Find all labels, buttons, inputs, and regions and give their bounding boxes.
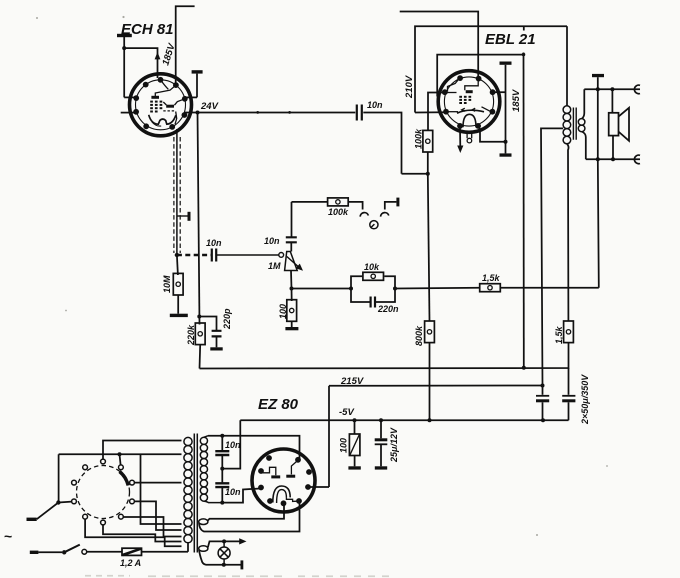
wire: hook2 to ground bar — [385, 202, 397, 210]
wire: selector frame left — [58, 454, 60, 502]
ground bar under 100 — [348, 466, 360, 469]
wire: output transformer primary top lead — [566, 26, 568, 106]
scan specks — [36, 16, 608, 536]
wire: 10k branch — [351, 276, 395, 288]
wire: EBL21 right pin to shield — [493, 91, 506, 93]
svg-text:10n: 10n — [225, 440, 241, 450]
resistor 10M — [173, 273, 183, 295]
node: junction pot / 100 ohm — [290, 287, 294, 291]
ground bar of shield — [177, 212, 191, 221]
fuse 1,2A — [122, 548, 142, 555]
resistor 1,5k (vertical, B+ dropper) — [564, 321, 574, 343]
wire: selector frame right to winding — [141, 454, 182, 524]
wire: to 100 ohm — [354, 420, 356, 434]
wire: to 100 ohm — [291, 289, 293, 302]
voltage selector (dashed circle) — [77, 466, 130, 519]
terminal hook bottom right — [634, 155, 640, 164]
EBL21 internal structure — [445, 78, 493, 143]
svg-text:100: 100 — [339, 438, 349, 453]
wire: 220p to ground — [216, 336, 218, 347]
svg-text:ECH 81: ECH 81 — [121, 21, 174, 38]
node: junction screen feed — [522, 366, 526, 370]
wire: AVC dashed line to C 10n — [177, 254, 211, 257]
wire: pot top line to 100k — [292, 201, 328, 203]
node: junction — [596, 87, 600, 91]
wire: 210V into EBL21 left pin — [415, 111, 446, 113]
node: junction — [393, 287, 397, 291]
capacitor 2x50u/350V (cell 1) — [536, 386, 549, 421]
resistor 100 (cathode) — [287, 300, 297, 322]
wire: to volume pot input — [216, 254, 279, 256]
mains lead 1 — [27, 503, 59, 522]
wire: lamp lead bottom — [199, 550, 241, 565]
wire: speaker bottom line — [586, 158, 640, 160]
terminal hook top right — [634, 85, 640, 94]
node: junction — [611, 157, 615, 161]
EZ80 internal structure — [261, 460, 298, 503]
wire: selector tap 6 — [103, 525, 182, 542]
selector terminals — [72, 459, 135, 525]
svg-text:~: ~ — [4, 528, 12, 544]
wire: lamp lead top with arrow — [208, 541, 241, 547]
arrow: heater 6.3V tap — [239, 538, 246, 544]
wire: T1 primary bottom lead to fuse line — [187, 543, 189, 552]
wire: top line EZ80 B+ riser — [328, 386, 330, 487]
node: junction — [596, 157, 600, 161]
resistor 800k — [425, 321, 435, 343]
ground T-bar left of ECH81 — [117, 34, 132, 98]
tube ECH81 — [130, 74, 192, 136]
svg-text:1,5k: 1,5k — [482, 273, 501, 283]
arrow: EBL21 cathode current arrow — [459, 128, 461, 148]
capacitor 10n (HV filter 1) — [215, 436, 229, 469]
wire: EZ80 cathode to B+ riser — [308, 486, 329, 488]
node: junction above lamp — [222, 539, 226, 543]
wire: speaker feeds — [611, 89, 614, 159]
wire: EBL21 pin to 100k — [428, 93, 447, 131]
svg-text:220k: 220k — [186, 324, 196, 346]
dial lamp — [218, 541, 230, 564]
capacitor 25u/12V — [375, 420, 388, 466]
node: junction heater CT — [220, 467, 224, 471]
wire: branch to 220p — [199, 317, 216, 331]
svg-text:-5V: -5V — [339, 407, 354, 418]
transformer T1 core — [194, 434, 197, 553]
node: junction 220p branch — [197, 315, 201, 319]
svg-text:1,5k: 1,5k — [554, 325, 564, 344]
node: junction under lamp — [222, 563, 226, 567]
wire: selector tap 7 — [85, 519, 181, 546]
transformer T2 core — [573, 108, 576, 140]
wire: 800k to -5V line — [429, 343, 431, 421]
svg-text:10n: 10n — [264, 236, 280, 246]
svg-text:185V: 185V — [511, 89, 522, 112]
resistor 220k — [195, 323, 205, 345]
wire: B+ tap from T2 primary — [541, 128, 563, 385]
wire: 100 to ground — [354, 456, 356, 467]
wire: T2 secondary bottom lead — [582, 132, 586, 160]
wire: B+ line y=385 — [329, 385, 543, 387]
wire: speaker top line — [584, 88, 640, 90]
wire: ECH81 antenna stub (left lower pin) — [121, 112, 137, 114]
wire: heater lead 2 — [199, 503, 300, 532]
wire: 100k bottom to node — [427, 152, 429, 174]
arrow 185V pointing up on wire — [155, 52, 161, 59]
wire: ECH81 anode stub to top edge — [176, 6, 195, 84]
node: junction — [118, 452, 122, 456]
node: junction — [428, 418, 432, 422]
wire: grid line ECH81 to C 10n (24V line) — [184, 112, 355, 114]
wire: anode feed nub at B+ line (label gap) — [523, 26, 525, 30]
ground shield bar bottom (EBL21) — [500, 153, 512, 156]
wire: -5V bias line — [240, 419, 568, 421]
ground bar (lamp circuit) — [241, 560, 244, 569]
wire: vertical cap above volume pot — [291, 202, 293, 237]
wire: cut-off top line to EBL21 grid — [400, 12, 479, 78]
wire: ECH81 right pin to T-bar — [185, 96, 197, 98]
ECH81 pins — [133, 77, 188, 130]
wire: selector frame top tap — [59, 453, 182, 455]
wire: grid lead inside shield — [176, 129, 178, 255]
wire: 215V screen line — [200, 343, 569, 369]
node: junction 800k/100k — [426, 172, 430, 176]
node: junction 24V line / 220k branch — [196, 111, 200, 115]
wire: EBL21 bottom pin to shield — [478, 126, 505, 142]
ground shield bar top (EBL21) — [500, 62, 512, 65]
ground bar under 100 — [285, 327, 298, 330]
wire: heater lead 1 — [208, 505, 284, 521]
wire: selector tap 4 — [134, 501, 181, 530]
node: junction mains in — [56, 500, 60, 504]
EBL21 pins — [442, 75, 496, 129]
transformer T1 HV secondary winding — [200, 437, 207, 501]
tube EBL21 — [438, 71, 500, 143]
node: junction 25u — [379, 418, 383, 422]
resistor 100 (bias divider) — [349, 434, 360, 456]
wire: selector tap 3 — [134, 482, 181, 484]
svg-text:25μ/12V: 25μ/12V — [389, 427, 399, 463]
svg-text:220n: 220n — [377, 304, 399, 314]
node: scan blob on grid line — [256, 111, 259, 114]
node: scan blob on grid line — [288, 111, 291, 114]
wire: pot wiper bottom — [290, 271, 293, 289]
wire: 1.5k to feedback vertical — [500, 287, 599, 289]
ground bar under 10M — [170, 314, 188, 317]
mains lead 2 — [30, 551, 62, 554]
svg-text:10n: 10n — [225, 487, 241, 497]
capacitor C 220n — [371, 297, 375, 308]
wire: 220k bottom to 215V line — [199, 345, 202, 369]
wire: anode branch over EBL21 — [437, 55, 523, 97]
wire: selector tap 5 — [123, 517, 181, 537]
node: junction dot at (124,48) — [122, 46, 126, 50]
svg-text:1,2 A: 1,2 A — [120, 558, 141, 568]
wire: mains to left terminal — [58, 501, 71, 504]
svg-text:10M: 10M — [162, 275, 172, 293]
wire: HV lower to EZ80 anode 2 — [222, 489, 260, 503]
wire: frame to terminal — [120, 454, 121, 465]
capacitor C 10n (grid coupling to EBL21) — [357, 105, 362, 121]
svg-text:1M: 1M — [268, 261, 281, 271]
wire: 100 to ground — [291, 321, 293, 327]
ground bar (gram) — [396, 198, 399, 207]
node: junction shield wire / AVC line — [175, 253, 179, 257]
wire: shield vertical — [505, 65, 507, 154]
resistor 100k (tone/gram) — [328, 198, 349, 206]
wire: vertical x=598 speaker line to 1.5k line — [598, 89, 599, 288]
wire: ECH81 left pin to T-bar stem — [124, 96, 137, 98]
wire: selector top tap — [103, 441, 182, 460]
wire: grid line corner to node — [402, 173, 428, 175]
bottom faded print artifacts — [85, 575, 392, 577]
transformer T1 heater winding (EZ80) — [199, 519, 208, 525]
node: junction — [220, 501, 224, 505]
capacitor C 10n (AVC) — [212, 249, 216, 262]
wire: HV winding top line to EZ80 anode — [208, 436, 300, 460]
wire: HV top lead — [204, 436, 208, 438]
node: junction anode branch — [522, 53, 526, 57]
wire: HV bottom lead — [204, 501, 222, 502]
node: junction — [610, 87, 614, 91]
svg-text:2×50μ/350V: 2×50μ/350V — [580, 374, 590, 425]
wire: fuse to primary — [142, 551, 189, 553]
svg-text:800k: 800k — [414, 325, 424, 346]
svg-text:100: 100 — [278, 304, 288, 319]
EBL21 grid mesh dots — [459, 96, 471, 104]
wire: switch to fuse — [87, 551, 122, 553]
wire: -5V to heater CT — [222, 420, 240, 468]
transformer T1 dial lamp winding — [199, 546, 208, 552]
svg-text:100k: 100k — [414, 128, 424, 149]
svg-text:10n: 10n — [367, 100, 383, 110]
svg-text:210V: 210V — [404, 75, 415, 99]
wire: vertical to 800k — [428, 174, 430, 321]
tube EZ80 — [252, 449, 315, 512]
wire: AF line to 1.5k — [395, 287, 480, 290]
resistor 10k — [363, 272, 384, 280]
wire: anode/screen vertical x=523.5 — [523, 53, 525, 368]
svg-text:EZ 80: EZ 80 — [258, 396, 299, 413]
wire: T2 primary bottom lead down — [567, 144, 569, 321]
wire: 100k to hook1 — [348, 202, 362, 210]
wire: 210V vertical and B+ top line — [415, 26, 567, 112]
EZ80 pins — [258, 455, 312, 506]
svg-text:24V: 24V — [200, 101, 219, 112]
ground T-bar above speaker — [592, 74, 604, 89]
wire: cap to pot — [290, 242, 292, 251]
capacitor 10n (HV filter 2) — [215, 469, 229, 503]
terminal hook 1 (gram input) — [360, 213, 368, 217]
svg-text:10n: 10n — [206, 238, 222, 248]
node: junction — [349, 287, 353, 291]
wire: 10M to ground — [177, 295, 179, 314]
wire: T2 secondary top lead — [582, 89, 584, 119]
wire: vertical from 24V node down to 220k — [198, 113, 200, 325]
node: junction — [220, 434, 224, 438]
plug symbol (gram) — [370, 221, 378, 229]
resistor 1,5k (grid stopper) — [480, 284, 501, 292]
potentiometer 1M (volume) — [279, 252, 303, 271]
wire: 220n branch — [351, 289, 395, 303]
wire: C 10n to corner, down to 800k node — [363, 113, 401, 174]
capacitor C 10n (pot top) — [286, 237, 297, 242]
speaker LS — [609, 108, 629, 141]
transformer T2 secondary winding — [578, 119, 585, 132]
terminal hook 2 (gram input) — [381, 213, 389, 217]
ground bar under 25u — [375, 466, 387, 469]
wire: 10M lead — [177, 255, 178, 275]
svg-text:220p: 220p — [222, 308, 232, 330]
node: junction electrolytic 1 — [541, 384, 545, 388]
wire: 185V branch to ECH81 top pin — [124, 48, 157, 78]
transformer T2 primary winding — [563, 106, 571, 144]
capacitor C 220p — [212, 331, 222, 337]
selector bridge (thick arc) — [120, 472, 129, 486]
node: junction — [541, 418, 545, 422]
node: junction on shield — [504, 140, 508, 144]
shielded wire from ECH81 grid (dashed screen) — [173, 137, 175, 253]
ground T-bar right of ECH81 — [192, 70, 203, 97]
ECH81 internal structure — [149, 80, 185, 126]
svg-text:100k: 100k — [328, 207, 349, 217]
wire: AF line pot to 10k — [292, 288, 352, 290]
node: junction 100 ohm bias — [353, 418, 357, 422]
svg-text:EBL 21: EBL 21 — [485, 31, 536, 48]
switch S1 — [62, 545, 87, 555]
capacitor 2x50u/350V (cell 2) — [562, 368, 575, 420]
svg-text:10k: 10k — [364, 262, 380, 272]
ECH81 grid mesh dots — [150, 101, 162, 113]
ground bar under 220p — [210, 347, 222, 350]
resistor 100k (EBL21 grid leak) — [423, 130, 433, 152]
transformer T1 primary winding — [184, 437, 192, 542]
